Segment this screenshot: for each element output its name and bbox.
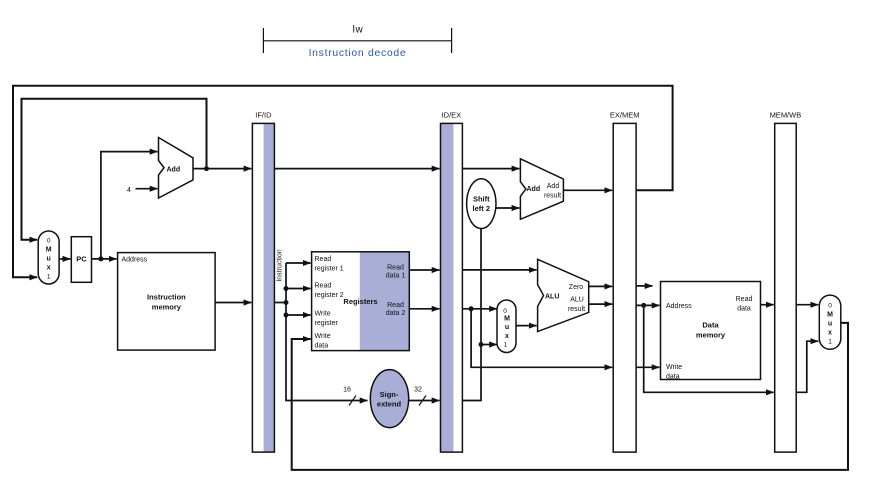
svg-text:Shift: Shift [473,195,490,204]
svg-text:0: 0 [47,238,51,245]
wire Read data to MEM/WB [761,304,774,306]
mux M3 (ALU source mux) [497,300,516,353]
svg-text:Add: Add [547,183,560,190]
svg-text:Write: Write [315,333,331,340]
memory Data memory [661,282,761,381]
wire Zero stub out of EX/MEM [636,285,652,287]
wire Add result to EX/MEM [563,189,612,191]
svg-text:register: register [315,320,339,327]
mux M1 (PC source mux) [38,231,59,284]
svg-text:data: data [737,306,751,313]
svg-text:register 1: register 1 [315,266,344,273]
svg-text:ALU: ALU [570,296,584,303]
svg-text:Read: Read [315,283,332,290]
svg-text:x: x [47,265,51,272]
register PC [71,237,91,283]
svg-text:Read: Read [387,302,404,309]
svg-text:ALU: ALU [545,293,559,300]
wire PC+4 from IF/ID to ID/EX [274,168,439,170]
svg-text:data: data [315,343,329,350]
svg-text:MEM/WB: MEM/WB [770,111,802,120]
wire Add output to IF/ID [193,168,251,170]
svg-text:Read: Read [736,296,753,303]
svg-text:1: 1 [504,342,508,349]
svg-text:Address: Address [122,257,148,264]
pipeline register MEM/WB [770,111,802,453]
svg-text:Registers: Registers [343,297,377,306]
svg-text:Write: Write [315,311,331,318]
svg-text:memory: memory [696,331,726,340]
svg-text:1: 1 [47,274,51,281]
alu ALU [538,259,589,331]
wire PC junction up to Add [101,152,158,259]
svg-text:ID/EX: ID/EX [442,111,462,120]
register file Registers [312,252,410,351]
wire instruction from IF/ID to trunk [274,302,286,304]
svg-text:IF/ID: IF/ID [255,111,272,120]
wire PC to Instruction memory [92,258,117,260]
svg-text:Instruction: Instruction [147,293,186,302]
wire Read data 1 to ID/EX [409,269,439,271]
svg-text:extend: extend [377,400,402,409]
pipeline register IF/ID [252,111,274,453]
adder Add (branch target) [520,159,563,220]
pipeline register EX/MEM [610,111,640,453]
wire branch-target feedback (EX/MEM to PC mux input 1) [13,86,673,278]
adder Add (PC+4) [159,138,194,199]
node ALU result junction [641,303,646,308]
svg-text:data 2: data 2 [386,310,406,317]
node Read data 2 junction [469,306,474,311]
wire mux M1 to PC [59,258,70,260]
wire Read data 2 from ID/EX to ALU mux input 0 [462,308,497,310]
svg-text:u: u [828,321,832,328]
svg-text:result: result [544,193,561,200]
svg-text:32: 32 [414,387,422,394]
svg-text:left 2: left 2 [473,204,491,213]
svg-text:data: data [666,374,680,381]
wire Read data from MEM/WB to WB mux input 0 [796,304,818,306]
svg-text:register 2: register 2 [315,292,344,299]
wire to Write register [286,314,311,316]
wire instruction trunk down to sign-extend [286,263,368,401]
svg-text:lw: lw [353,25,364,36]
wire Sign-extend output to ID/EX [409,400,440,402]
svg-text:u: u [47,256,51,263]
wire write data from EX/MEM to Data memory [636,366,659,368]
svg-text:0: 0 [503,308,507,315]
svg-text:Instruction decode: Instruction decode [309,48,407,59]
svg-text:Address: Address [666,303,692,310]
svg-text:Sign-: Sign- [380,390,399,399]
svg-text:x: x [828,330,832,337]
svg-text:Read: Read [387,265,404,272]
svg-text:u: u [505,324,509,331]
svg-text:Data: Data [702,321,719,330]
svg-text:M: M [504,316,510,323]
svg-text:memory: memory [152,303,182,312]
wire ALU result bypass to MEM/WB [644,305,774,392]
wire PC+4 from ID/EX to Add [462,168,519,170]
wire Read data 1 from ID/EX to ALU [462,269,536,271]
wire to Read register 1 [286,262,311,264]
svg-text:Add: Add [167,166,181,173]
wire PC+4 feedback (Add output to PC mux input 0) [22,99,207,240]
svg-text:Instruction: Instruction [277,249,284,281]
pipeline register ID/EX [441,111,463,453]
wire ALU result from EX/MEM to Data memory Address [636,304,659,306]
svg-text:16: 16 [343,387,351,394]
svg-text:4: 4 [127,187,131,194]
svg-text:M: M [827,312,833,319]
wire Shift left 2 to Add [496,207,519,209]
shifter Shift left 2 [467,179,496,229]
wire ALU mux output to ALU [516,325,537,327]
node trunk junction read register 2 [284,286,289,291]
wire Read data 2 to ID/EX [409,308,439,310]
node Add output junction [204,166,209,171]
node trunk junction instruction feed [284,300,289,305]
wire Read data 2 down to write data path [471,309,612,368]
svg-text:Write: Write [666,364,682,371]
svg-text:1: 1 [828,339,832,346]
wire to Read register 2 [286,288,311,290]
svg-text:x: x [505,333,509,340]
svg-text:Read: Read [315,256,332,263]
wire Instruction memory output to IF/ID [215,302,251,304]
wire immediate from ID/EX up to Shift left 2 [462,228,481,400]
node immediate junction [479,342,484,347]
svg-text:M: M [46,247,52,254]
svg-text:data 1: data 1 [386,273,406,280]
svg-text:result: result [568,306,585,313]
svg-text:EX/MEM: EX/MEM [610,111,640,120]
node PC output junction [98,256,103,261]
wire write-back to Registers Write data [292,323,848,470]
wire Zero to EX/MEM [589,285,613,287]
svg-text:Zero: Zero [569,284,584,291]
wire ALU result to EX/MEM [589,303,613,305]
mux M4 (write-back mux) [819,295,841,349]
svg-text:0: 0 [828,303,832,310]
wire immediate branch to ALU mux input 1 [481,344,497,346]
svg-text:Add: Add [527,186,541,193]
wire ALU result bypass from MEM/WB to WB mux input 1 [796,341,818,392]
svg-text:PC: PC [76,255,87,264]
node trunk junction write register [284,313,289,318]
lw stage bracket [263,28,451,53]
wire constant 4 to Add [136,188,158,190]
sign extender Sign-extend [370,370,408,428]
memory Instruction memory [118,253,216,351]
